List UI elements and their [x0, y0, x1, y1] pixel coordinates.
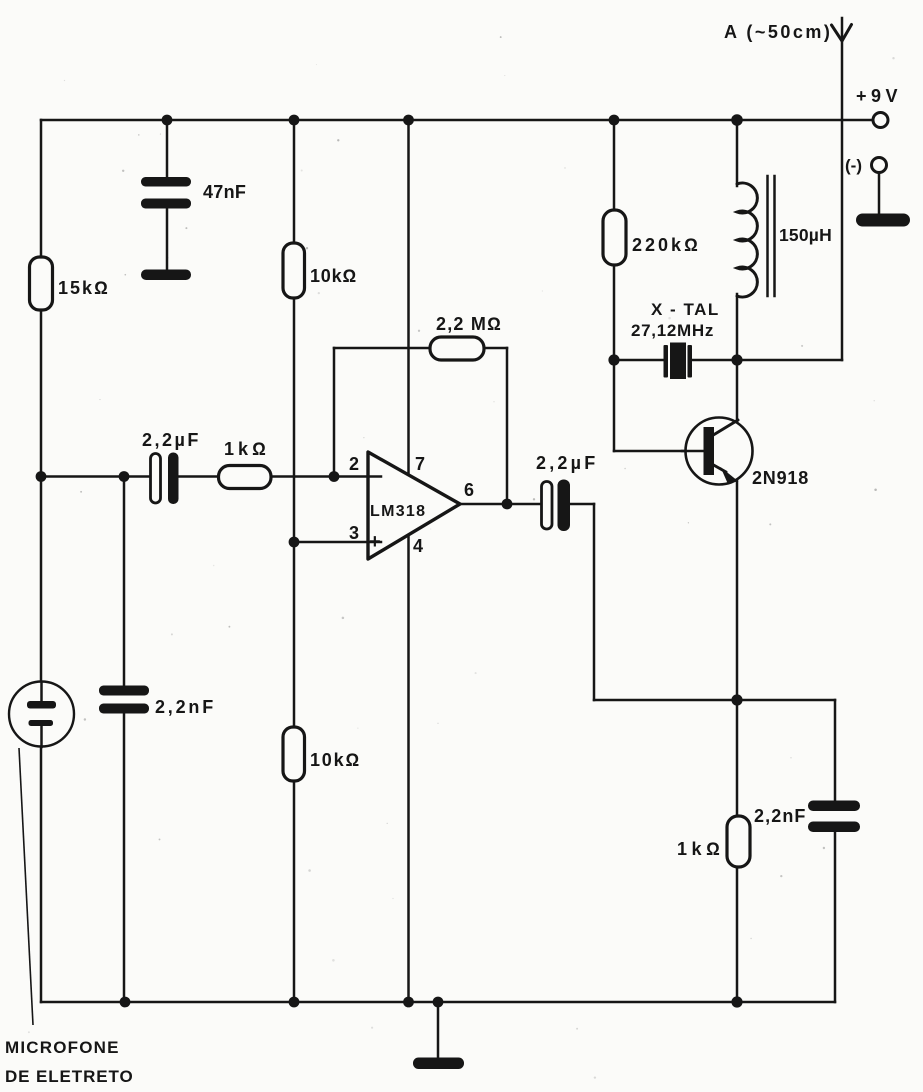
transistor emitter arrowhead	[721, 467, 739, 483]
node dot bottom rail 2.2nF	[120, 997, 131, 1008]
svg-text:10kΩ: 10kΩ	[310, 266, 357, 286]
wire 2.2nF branch lower	[123, 712, 126, 1002]
capacitor C 47nF plates	[141, 177, 191, 187]
wire emitter row	[594, 699, 835, 702]
wire 220k / base branch vertical	[613, 120, 616, 451]
microphone top lead	[40, 682, 43, 702]
wire coupling route down	[593, 504, 596, 700]
node dot top rail inductor	[731, 114, 743, 126]
node dot bottom rail 10k	[289, 997, 300, 1008]
wire cap to pin2	[179, 475, 381, 478]
wire (-) terminal stem	[878, 173, 881, 216]
transistor collector stroke	[710, 420, 738, 437]
resistor R 1k emitter body	[727, 816, 750, 867]
svg-text:(-): (-)	[845, 156, 862, 175]
terminal (-) circle	[872, 158, 887, 173]
svg-text:4: 4	[413, 536, 423, 556]
transistor emitter stroke	[710, 463, 726, 472]
wire ground stem bottom	[437, 1002, 440, 1060]
svg-text:27,12MHz: 27,12MHz	[631, 321, 714, 340]
svg-text:150µH: 150µH	[779, 225, 832, 245]
svg-text:LM318: LM318	[370, 503, 426, 520]
wire right branch down to 2.2nF	[834, 700, 837, 802]
node dot pin3 tap	[289, 537, 300, 548]
resistor R 220k body	[603, 210, 626, 265]
wire 47nF branch lower	[166, 208, 169, 271]
ground bar at (-) terminal	[856, 214, 910, 227]
node dot emitter row	[731, 694, 742, 705]
svg-text:1kΩ: 1kΩ	[224, 439, 270, 459]
resistor R 10k bottom body	[283, 727, 305, 781]
node dot top rail 10k	[289, 115, 300, 126]
capacitor C 2.2nF left plates	[99, 686, 149, 696]
wire pin3 row	[294, 541, 381, 544]
op-amp pin2 stub	[368, 475, 381, 478]
resistor R 1k input body	[219, 466, 272, 489]
inductor core lines	[768, 176, 775, 296]
microphone label leader line	[19, 748, 33, 1025]
wire top supply rail	[41, 119, 872, 122]
transistor base bar	[704, 427, 715, 475]
wire collector-emitter vertical	[736, 360, 739, 1002]
capacitor C 2.2uF output plates	[542, 482, 553, 530]
svg-text:+: +	[369, 531, 381, 553]
op-amp U1 LM318 triangle	[368, 452, 460, 559]
svg-text:X - TAL: X - TAL	[651, 300, 720, 319]
node dot output junction	[502, 499, 513, 510]
microphone capsule top bar	[27, 701, 56, 709]
capacitor C 2.2nF right plates	[808, 801, 860, 812]
svg-text:15kΩ: 15kΩ	[58, 278, 110, 298]
wire inductor branch top	[736, 120, 739, 186]
svg-text:7: 7	[415, 454, 425, 474]
svg-text:1kΩ: 1kΩ	[677, 839, 724, 859]
svg-text:220kΩ: 220kΩ	[632, 235, 701, 255]
node dot top rail 47nF	[162, 115, 173, 126]
node dot feedback tap	[329, 471, 340, 482]
wire inductor bottom	[736, 294, 739, 360]
wire feedback up	[333, 348, 336, 477]
wire 10k divider vertical	[293, 120, 296, 1002]
wire mic signal row	[41, 475, 150, 478]
svg-text:2,2nF: 2,2nF	[754, 806, 807, 826]
svg-text:MICROFONE: MICROFONE	[5, 1038, 120, 1057]
wire antenna mast	[841, 18, 844, 360]
node dot signal row 2.2nF tap	[119, 471, 130, 482]
svg-text:6: 6	[464, 480, 474, 500]
wire below right 2.2nF	[834, 831, 837, 1002]
resistor R 15k body	[30, 257, 53, 310]
transistor Q1 2N918 circle	[686, 418, 753, 485]
svg-text:2,2nF: 2,2nF	[155, 697, 216, 717]
svg-text:+9V: +9V	[856, 86, 902, 106]
svg-text:A (~50cm): A (~50cm)	[724, 22, 832, 42]
wire left vertical (15k / mic branch)	[40, 120, 43, 1002]
svg-text:2,2µF: 2,2µF	[142, 430, 201, 450]
wire 47nF branch upper	[166, 120, 169, 178]
resistor R 2.2M body	[430, 337, 484, 360]
node dot bottom rail ground	[433, 997, 444, 1008]
node dot bottom rail pin4	[403, 997, 414, 1008]
node dot top rail 220k	[609, 115, 620, 126]
microphone body circle	[9, 682, 74, 747]
capacitor C 2.2uF input plates	[151, 454, 161, 504]
node dot bottom rail emitter	[731, 996, 742, 1007]
wire after output cap	[570, 503, 594, 506]
svg-text:47nF: 47nF	[203, 182, 246, 202]
wire base horizontal	[614, 450, 706, 453]
wire op-amp pin7/pin4 vertical	[407, 120, 410, 1002]
ground bar below 47nF	[141, 270, 191, 281]
svg-text:3: 3	[349, 523, 359, 543]
antenna arrow	[832, 25, 852, 42]
wire crystal row left	[614, 359, 665, 362]
svg-text:2,2 MΩ: 2,2 MΩ	[436, 314, 502, 334]
inductor L1 coil 150uH	[737, 183, 757, 297]
op-amp pin3 stub	[368, 541, 381, 544]
wire crystal row right to antenna corner	[689, 359, 842, 362]
wire op-amp output row	[458, 503, 542, 506]
svg-text:2N918: 2N918	[752, 468, 809, 488]
svg-text:2,2µF: 2,2µF	[536, 453, 598, 473]
node dot top rail pin7	[403, 115, 414, 126]
wire 2.2nF branch upper	[123, 477, 126, 688]
microphone capsule bottom bar	[29, 720, 54, 726]
terminal +9V circle	[873, 113, 888, 128]
microphone bottom lead	[40, 726, 43, 747]
transistor base wire inside	[682, 450, 706, 453]
wire feedback down to output	[506, 348, 509, 504]
wire bottom ground rail	[41, 1001, 835, 1004]
node dot signal row left	[36, 471, 47, 482]
node dot crystal right collector	[731, 354, 742, 365]
wire feedback top horizontal	[334, 347, 507, 350]
ground bar bottom	[413, 1058, 464, 1070]
svg-text:DE ELETRETO: DE ELETRETO	[5, 1067, 134, 1086]
resistor R 10k top body	[283, 243, 305, 298]
crystal X-TAL symbol	[664, 345, 669, 378]
svg-text:2: 2	[349, 454, 359, 474]
svg-text:10kΩ: 10kΩ	[310, 750, 361, 770]
node dot crystal left	[608, 354, 619, 365]
